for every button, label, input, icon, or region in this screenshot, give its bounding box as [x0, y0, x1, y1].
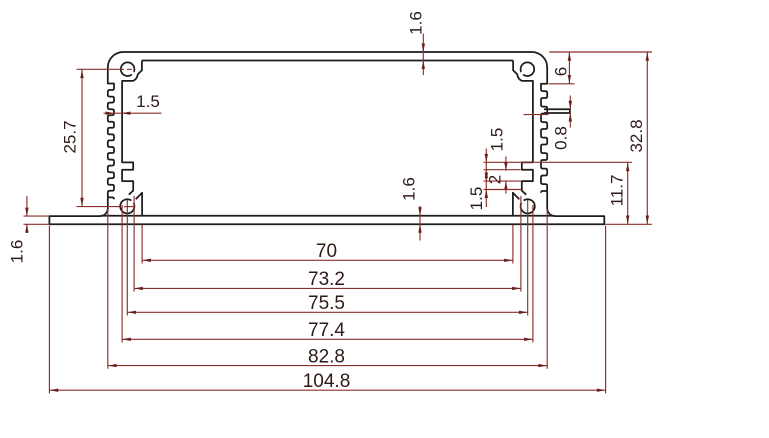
svg-text:1.5: 1.5 [467, 187, 486, 211]
profile: protruding thin fin on right wall (0.8 thick) [544, 109, 570, 113]
svg-text:82.8: 82.8 [308, 346, 345, 367]
slot opening bottom-right boss [520, 199, 525, 204]
profile: top-left boss lips + left wall inner face with PCB fins [122, 61, 142, 195]
long extension line y=162.3 (1.5 / 11.7) [484, 161, 632, 163]
slot opening top-left boss [131, 71, 136, 76]
boss circle bottom-right [521, 199, 535, 213]
dimension 1.6 top wall [422, 34, 424, 76]
profile: bottom-right boss outer lip [513, 193, 519, 216]
dimension 6 top-right [549, 83, 575, 85]
profile: left wall outer face with serrations + flange fillet [100, 67, 114, 216]
svg-text:0.8: 0.8 [552, 126, 571, 150]
dimension 104.8 bottom [48, 226, 50, 394]
profile: inner top wall line [142, 60, 513, 62]
dimension 75.5 bottom [126, 200, 128, 316]
slot opening bottom-left boss [130, 199, 135, 204]
dimension 82.8 bottom [107, 209, 109, 369]
extension line top right (32.8 / 6) [549, 51, 652, 53]
dimension 25.7 left [77, 68, 125, 70]
dimension 77.4 bottom [121, 205, 123, 343]
dimension 73.2 bottom [133, 196, 135, 292]
dimension 1.5 right upper fin [484, 169, 521, 171]
svg-text:25.7: 25.7 [61, 120, 80, 153]
svg-text:6: 6 [552, 67, 571, 76]
dimension 2 right gap [505, 157, 507, 171]
extension line flange bottom right [605, 223, 652, 225]
small red line right wall groove [524, 114, 549, 116]
dimension 32.8 [646, 52, 648, 224]
svg-text:75.5: 75.5 [308, 293, 345, 314]
slot opening top-right boss [519, 71, 524, 76]
svg-text:2: 2 [486, 175, 505, 184]
svg-text:1.5: 1.5 [136, 92, 160, 111]
dimension 1.6 bottom-left flange [24, 215, 50, 217]
svg-text:1.6: 1.6 [407, 11, 426, 35]
dimension 11.7 [627, 162, 629, 224]
svg-text:77.4: 77.4 [308, 320, 345, 341]
svg-text:1.6: 1.6 [8, 240, 27, 264]
dimension 70 bottom [141, 225, 143, 264]
boss circle top-left [121, 62, 135, 76]
svg-text:70: 70 [316, 241, 337, 262]
dimension 1.5 left wall [104, 112, 162, 114]
profile: bottom-left boss outer lip [136, 193, 142, 216]
svg-text:32.8: 32.8 [627, 119, 646, 152]
profile: outer top wall with rounded corners [108, 52, 547, 68]
boss circle top-right [521, 62, 535, 76]
svg-text:104.8: 104.8 [303, 371, 351, 392]
dimension 0.8 right fin [569, 96, 571, 110]
dimension 1.5 right lower fin [484, 180, 522, 182]
profile: right wall outer face with serrations + flange fillet [541, 67, 555, 216]
dimension 1.6 floor thickness [419, 206, 421, 241]
svg-text:1.6: 1.6 [400, 177, 419, 201]
svg-text:1.5: 1.5 [488, 128, 507, 152]
profile: bottom flange plate [49, 216, 604, 224]
boss circle bottom-left [120, 199, 134, 213]
profile: enclosure floor inner surface [101, 215, 555, 217]
svg-text:73.2: 73.2 [308, 269, 345, 290]
svg-text:11.7: 11.7 [608, 175, 627, 207]
profile: top-right boss lips + right wall inner face with PCB fins [513, 61, 533, 195]
